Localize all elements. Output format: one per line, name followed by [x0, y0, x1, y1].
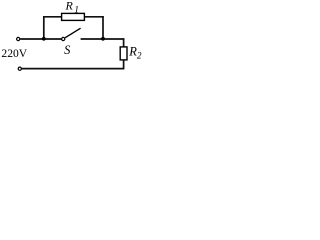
resistor R1 body — [62, 13, 85, 20]
svg-text:220V: 220V — [1, 47, 27, 60]
switch S lever — [65, 28, 81, 38]
wire bottom return — [22, 68, 125, 70]
node junction left — [42, 37, 46, 41]
svg-text:R: R — [65, 0, 74, 12]
svg-text:1: 1 — [74, 5, 79, 15]
terminal top AC — [17, 37, 20, 40]
resistor R2 body — [120, 47, 127, 60]
svg-text:R: R — [128, 45, 137, 59]
wire left vertical riser to R1 loop — [43, 17, 45, 39]
svg-text:2: 2 — [137, 51, 142, 61]
svg-text:S: S — [64, 43, 71, 57]
wire top feed from AC terminal to switch — [20, 38, 61, 40]
wire right vertical drop from R1 loop — [102, 16, 104, 39]
wire switch output to R2 branch — [81, 38, 125, 40]
terminal bottom AC — [18, 67, 21, 70]
switch S pivot circle — [62, 37, 65, 40]
wire top horizontal through R1 — [43, 16, 104, 18]
node junction right — [101, 37, 105, 41]
wire R2 vertical branch — [123, 38, 125, 68]
